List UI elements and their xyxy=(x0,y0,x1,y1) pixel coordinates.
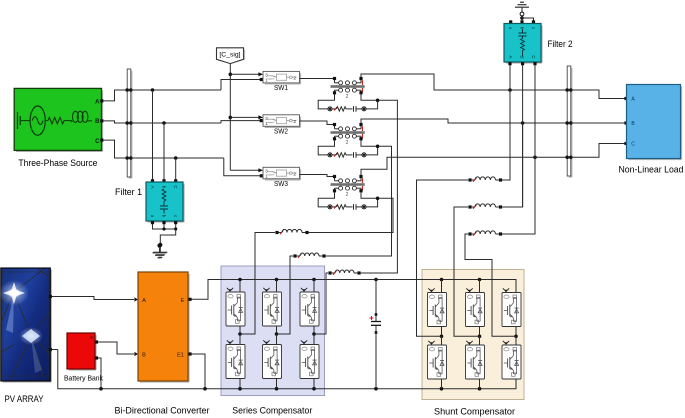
IGBT S3 lower xyxy=(300,340,319,378)
wire RLC to node T3s xyxy=(366,200,378,207)
svg-text:2: 2 xyxy=(293,172,296,178)
IGBT H1 upper xyxy=(428,288,447,326)
wire inductor L1 to phase A xyxy=(502,92,510,180)
transformer T3 xyxy=(331,175,365,198)
svg-text:B: B xyxy=(142,353,146,359)
wire bus B2 to load B xyxy=(571,121,628,124)
filter 2 top ports xyxy=(509,20,535,23)
IGBT H3 lower xyxy=(502,341,521,379)
label Filter 2 xyxy=(548,39,573,49)
wire S2 midpoint to inductor Lb xyxy=(277,256,294,334)
transformer T1 xyxy=(331,77,365,100)
svg-text:Non-Linear Load: Non-Linear Load xyxy=(619,164,684,175)
svg-text:Three-Phase Source: Three-Phase Source xyxy=(18,158,97,168)
node H3 midpoint xyxy=(514,327,518,346)
wire source B to bus B1 xyxy=(103,121,127,123)
wire SW2 to transformer T2 xyxy=(300,121,335,125)
breaker SW2 xyxy=(263,115,301,128)
label Battery Bank xyxy=(64,374,103,383)
IGBT S2 upper xyxy=(263,288,282,326)
wire T1 secondary left to RLC xyxy=(318,94,334,109)
wire bus B1 phase C xyxy=(131,156,224,160)
wire converter E1 to DC negative rail xyxy=(190,354,205,389)
wire S2 emitter to rail xyxy=(276,379,278,389)
svg-text:A: A xyxy=(95,99,100,105)
svg-text:Series Compensator: Series Compensator xyxy=(232,406,312,416)
wire S1 midpoint to inductor La xyxy=(240,233,275,335)
label SW2 xyxy=(274,126,288,135)
wire C_sig control net xyxy=(229,63,233,170)
wire PV negative to DC rail xyxy=(52,349,58,351)
label Series Compensator xyxy=(232,406,312,416)
svg-text:SW1: SW1 xyxy=(274,83,288,92)
IGBT S3 upper xyxy=(300,288,319,326)
inductor L1 xyxy=(468,177,502,182)
wires Filter 1 to ground xyxy=(151,221,177,247)
label Three-Phase Source xyxy=(18,158,97,168)
capacitor DC link xyxy=(370,280,382,389)
three-phase source block xyxy=(14,88,103,151)
wire phase B to SW2 xyxy=(221,119,263,123)
wire T1 secondary right, node T1s xyxy=(361,94,379,102)
wire T2 secondary left to RLC xyxy=(318,140,334,155)
svg-text:Shunt Compensator: Shunt Compensator xyxy=(434,407,515,417)
IGBT S2 lower xyxy=(263,340,282,378)
node S1 midpoint xyxy=(238,326,242,345)
wire bus B1 phase A xyxy=(131,88,221,92)
svg-text:2: 2 xyxy=(293,76,296,82)
svg-text:SW2: SW2 xyxy=(274,126,288,135)
svg-text:PV ARRAY: PV ARRAY xyxy=(5,394,44,404)
filter 2 bottom ports xyxy=(508,62,536,65)
label SW3 xyxy=(274,179,288,188)
wire phase C to bus B2 xyxy=(361,156,567,176)
battery bank block xyxy=(67,333,96,370)
wire inductor La to node T3s xyxy=(309,198,393,232)
ground above converter xyxy=(153,244,167,258)
label Non-Linear Load xyxy=(619,164,684,175)
wire phase B to bus B2 xyxy=(361,119,567,125)
wire control to SW2 xyxy=(230,115,263,119)
wire inductor L2 to phase B xyxy=(502,125,522,207)
wire phase A to bus B2 xyxy=(361,74,567,92)
busbar B2 xyxy=(565,66,572,177)
IGBT H1 lower xyxy=(428,341,447,379)
inductor L3 xyxy=(468,231,502,236)
wire phase C to SW3 xyxy=(224,158,263,177)
wire RLC to node T1s xyxy=(366,102,378,109)
svg-text:B: B xyxy=(519,55,524,58)
svg-text:2: 2 xyxy=(346,94,349,100)
svg-text:A: A xyxy=(142,298,146,304)
wire bus B2 to load C xyxy=(571,142,628,157)
label Bi-Directional Converter xyxy=(115,406,210,416)
converter output ports xyxy=(188,298,191,356)
busbar B1 xyxy=(125,69,132,178)
wires ground to Filter 2 ports b,c xyxy=(520,12,533,21)
wire rail to H3 collector xyxy=(515,280,517,293)
wire bus B2 to load A xyxy=(571,90,628,100)
node H2 midpoint xyxy=(478,327,482,346)
svg-text:2: 2 xyxy=(346,140,349,146)
wire inductor L3 to phase C xyxy=(502,159,535,234)
IGBT S1 upper xyxy=(226,288,245,326)
shunt compensator region xyxy=(422,270,524,400)
wire T3 secondary left to RLC xyxy=(318,192,334,207)
node S2 midpoint xyxy=(275,326,279,345)
wire DC positive rail from converter E xyxy=(190,278,516,300)
wire phase A to SW1 xyxy=(221,78,263,90)
svg-text:A: A xyxy=(150,185,155,188)
PV array ports xyxy=(49,295,52,351)
non-linear load block xyxy=(627,85,682,160)
wire S3 midpoint to inductor Lc xyxy=(314,273,328,334)
wire inductor Lb to node T2s xyxy=(326,146,392,256)
wire H1 midpoint to inductor L1 xyxy=(417,180,469,336)
svg-text:SW3: SW3 xyxy=(274,179,288,188)
PV array block xyxy=(0,268,51,382)
wire filter2 C / shunt L3 vertical xyxy=(534,65,536,234)
breaker SW1 xyxy=(263,71,301,84)
svg-text:A: A xyxy=(508,55,513,58)
goto-from tag C_sig xyxy=(217,48,245,64)
svg-text:Filter 1: Filter 1 xyxy=(115,187,142,197)
svg-text:2: 2 xyxy=(293,119,296,125)
wire RLC to node T2s xyxy=(366,148,378,155)
wire PV to converter A xyxy=(52,297,138,302)
wire H3 midpoint to inductor L3 xyxy=(465,234,516,336)
svg-text:Filter 2: Filter 2 xyxy=(548,39,573,49)
bi-directional converter block xyxy=(138,272,189,382)
svg-text:E: E xyxy=(181,298,185,304)
wire rail to S1 collector xyxy=(239,280,241,293)
svg-text:C: C xyxy=(95,139,100,145)
wire control to SW3 xyxy=(230,168,263,172)
svg-text:B: B xyxy=(95,119,100,125)
transformer T2 xyxy=(331,123,365,146)
wire rail to S3 collector xyxy=(313,280,315,293)
filter 2 block xyxy=(504,24,542,64)
wire S1 emitter to rail xyxy=(239,379,241,389)
wire SW1 to transformer T1 xyxy=(300,78,335,80)
battery ports xyxy=(95,340,98,359)
wire T2 secondary right, node T2s xyxy=(361,140,379,148)
wire H2 emitter to rail xyxy=(479,379,481,389)
wire filter2 B / shunt L2 vertical xyxy=(522,65,524,207)
wire battery to converter B xyxy=(98,342,138,356)
svg-text:[C_sig]: [C_sig] xyxy=(219,52,240,59)
wire battery negative to DC rail xyxy=(98,358,101,389)
IGBT H3 upper xyxy=(502,288,521,326)
ground under Filter 1 xyxy=(153,247,167,257)
wire source A to bus B1 xyxy=(103,90,127,101)
wire rail to S2 collector xyxy=(276,280,278,293)
IGBT H2 upper xyxy=(466,288,485,326)
svg-text:Bi-Directional Converter: Bi-Directional Converter xyxy=(115,406,210,416)
wire H2 midpoint to inductor L2 xyxy=(454,207,480,336)
wire control to SW1 xyxy=(230,72,263,76)
wire bus B1 phase B xyxy=(131,121,221,125)
IGBT S1 lower xyxy=(226,340,245,378)
wire source C to bus B1 xyxy=(103,140,127,158)
filter 1 block xyxy=(146,182,184,222)
RLC snubber branch of T1 xyxy=(328,106,366,112)
wire rail to H2 collector xyxy=(479,280,481,293)
inductor Lc xyxy=(328,270,360,275)
RLC snubber branch of T2 xyxy=(328,152,366,158)
breaker SW3 xyxy=(263,167,301,180)
svg-text:C: C xyxy=(631,142,635,148)
node S3 midpoint xyxy=(312,326,316,345)
label PV ARRAY xyxy=(5,394,44,404)
wire SW3 to transformer T3 xyxy=(300,175,335,177)
inductor L2 xyxy=(468,204,502,209)
wire H1 emitter to rail xyxy=(441,379,443,389)
series compensator region xyxy=(221,266,325,396)
wire inductor Lc to node T1s xyxy=(361,100,398,273)
IGBT H2 lower xyxy=(466,341,485,379)
label Filter 1 xyxy=(115,187,142,197)
inductor La xyxy=(275,229,308,234)
wire DC negative rail xyxy=(58,350,516,391)
node H1 midpoint xyxy=(440,327,444,346)
ground above Filter 2 xyxy=(515,2,529,12)
label Shunt Compensator xyxy=(434,407,515,417)
wires bus B1 to Filter 1 xyxy=(151,90,177,182)
svg-text:2: 2 xyxy=(346,192,349,198)
wire S3 emitter to rail xyxy=(313,379,315,389)
wire rail to H1 collector xyxy=(441,280,443,293)
inductor Lb xyxy=(293,253,325,258)
wire H3 emitter to rail xyxy=(515,379,517,389)
wire T3 secondary right, node T3s xyxy=(361,192,379,200)
RLC snubber branch of T3 xyxy=(328,204,366,210)
svg-text:Battery Bank: Battery Bank xyxy=(64,374,103,383)
wire filter2 A / shunt L1 vertical xyxy=(509,65,511,180)
label SW1 xyxy=(274,83,288,92)
svg-text:E1: E1 xyxy=(177,353,184,359)
